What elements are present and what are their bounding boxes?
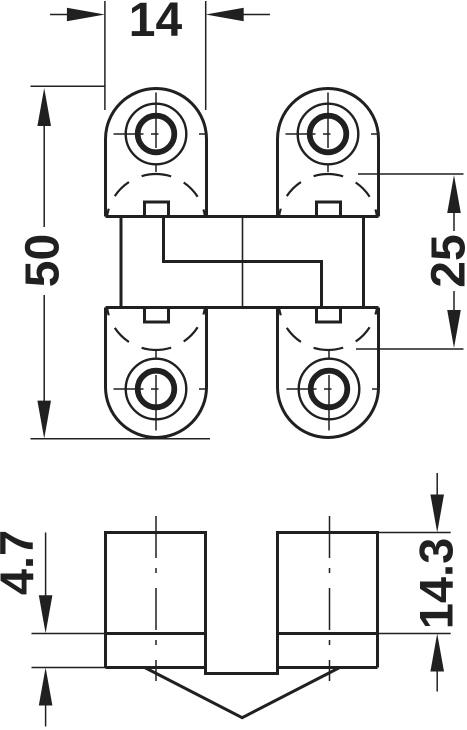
tongue bottom bbox=[204, 672, 279, 675]
dim 4.7 lower up arrow and tail bbox=[39, 668, 53, 706]
centerline right block bbox=[329, 516, 331, 681]
dim 14.3 lower up arrow and tail bbox=[430, 634, 444, 672]
dim 4.7 extension top bbox=[32, 633, 106, 635]
dim 14 right arrow bbox=[206, 8, 244, 22]
band top line through left block bbox=[106, 632, 206, 635]
V opening mark bbox=[145, 668, 340, 718]
hinge body top edge bbox=[106, 215, 379, 218]
band bottom line through right block bbox=[278, 666, 378, 669]
dim 4.7 extension bottom bbox=[32, 667, 106, 669]
screw hole bottom-right inner ring bbox=[311, 371, 348, 408]
screw hole top-right outer circle bbox=[298, 104, 359, 165]
screw hole top-right inner ring bbox=[310, 116, 347, 153]
svg-text:50: 50 bbox=[17, 234, 70, 287]
dim 14.3 upper tail and down arrow bbox=[436, 473, 438, 495]
dim 50 bottom extension line bbox=[31, 438, 211, 440]
notch bottom-right lobe bbox=[317, 308, 341, 323]
crosshair bottom-left hole bbox=[114, 351, 207, 431]
notch top-left lobe bbox=[145, 202, 169, 217]
dashed mortise arc bottom-right bbox=[279, 308, 377, 350]
dim 4.7 upper line and down arrow bbox=[45, 533, 47, 597]
Z-link of hinge arms bbox=[164, 217, 322, 308]
crosshair top-left hole bbox=[114, 93, 207, 173]
dim 14.3 extension bottom bbox=[378, 633, 451, 635]
svg-text:25: 25 bbox=[423, 234, 467, 287]
dim 14 left arrow bbox=[67, 8, 105, 22]
dim 50 top extension line bbox=[31, 85, 106, 87]
svg-text:14: 14 bbox=[129, 0, 183, 47]
svg-text:14.3: 14.3 bbox=[410, 538, 463, 629]
wire: extension line left of dim 14 bbox=[104, 1, 106, 110]
right block outline bbox=[278, 533, 378, 674]
screw hole top-left inner ring bbox=[138, 116, 175, 153]
lobe top-left outline bbox=[106, 89, 207, 217]
joint line between hinge halves bbox=[242, 217, 244, 308]
band bottom line through left block bbox=[106, 666, 206, 669]
dim 25 down arrow bbox=[447, 310, 461, 348]
dashed mortise arc top-right bbox=[279, 174, 377, 216]
dim 50 up arrow bbox=[37, 88, 51, 126]
screw hole bottom-right outer circle bbox=[299, 359, 360, 420]
lobe bottom-left outline bbox=[106, 308, 207, 438]
lobe top-right outline bbox=[278, 89, 379, 217]
screw hole bottom-left outer circle bbox=[126, 359, 187, 420]
dim 14.3 extension top bbox=[378, 532, 451, 534]
dim 25 top extension line bbox=[358, 173, 464, 175]
lobe bottom-right outline bbox=[278, 308, 379, 438]
screw hole bottom-left inner ring bbox=[138, 371, 175, 408]
dashed mortise arc top-left bbox=[107, 174, 205, 216]
screw hole top-left outer circle bbox=[126, 104, 187, 165]
notch bottom-left lobe bbox=[145, 308, 169, 323]
dashed mortise arc bottom-left bbox=[107, 308, 205, 350]
wire: extension line right of dim 14 bbox=[205, 1, 207, 110]
hinge body outline: central plate rectangle bbox=[121, 217, 364, 308]
dim 25 up arrow bbox=[447, 175, 461, 213]
svg-text:4.7: 4.7 bbox=[0, 530, 43, 595]
crosshair bottom-right hole bbox=[287, 351, 380, 431]
hinge body bottom edge bbox=[106, 306, 379, 309]
centerline left block bbox=[155, 516, 157, 681]
left block outline bbox=[106, 533, 206, 674]
dim 50 down arrow bbox=[37, 401, 51, 439]
dim 25 bottom extension line bbox=[356, 348, 464, 350]
crosshair top-right hole bbox=[286, 93, 379, 173]
band top line through right block bbox=[278, 632, 378, 635]
notch top-right lobe bbox=[317, 202, 341, 217]
